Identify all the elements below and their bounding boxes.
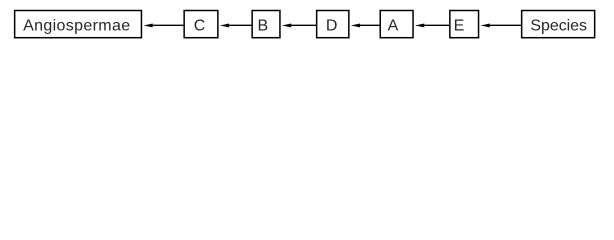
background xyxy=(0,0,614,56)
wire C to Angiospermae xyxy=(152,24,183,26)
svg-text:B: B xyxy=(257,18,268,35)
box Angiospermae xyxy=(15,11,142,38)
wire E to A xyxy=(424,24,449,26)
arrowhead xyxy=(282,24,291,28)
arrow D to B xyxy=(282,24,316,28)
arrow E to A xyxy=(415,24,449,28)
wire B to C xyxy=(229,24,252,26)
arrowhead xyxy=(351,24,360,28)
arrowhead xyxy=(220,24,229,28)
box E xyxy=(450,11,479,38)
svg-text:C: C xyxy=(194,18,206,35)
arrow Species to E xyxy=(481,24,521,28)
box C xyxy=(184,11,218,38)
arrow B to C xyxy=(220,24,252,28)
arrow C to Angiospermae xyxy=(143,24,183,28)
svg-text:Species: Species xyxy=(530,18,587,35)
arrowhead xyxy=(143,24,152,28)
svg-text:A: A xyxy=(388,18,399,35)
arrowhead xyxy=(481,24,490,28)
wire Species to E xyxy=(489,24,521,26)
arrow A to D xyxy=(351,24,380,28)
svg-text:D: D xyxy=(326,18,338,35)
box Species xyxy=(522,11,595,38)
wire A to D xyxy=(360,24,380,26)
svg-text:E: E xyxy=(454,18,465,35)
box A xyxy=(380,11,413,38)
arrowhead xyxy=(415,24,424,28)
wire D to B xyxy=(291,24,316,26)
box B xyxy=(252,11,280,38)
svg-text:Angiospermae: Angiospermae xyxy=(23,18,130,35)
box D xyxy=(317,11,349,38)
